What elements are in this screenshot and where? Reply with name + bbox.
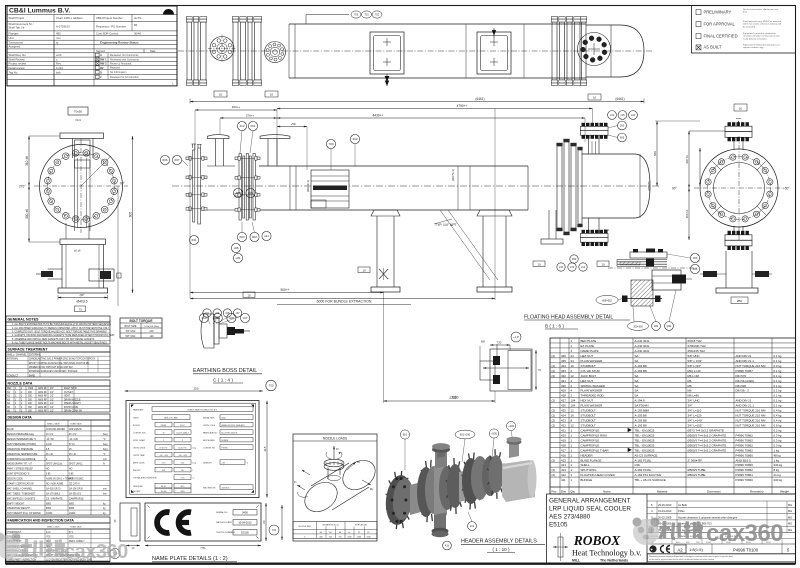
svg-text:4. GASKETS, PACKING AND MARKI: 4. GASKETS, PACKING AND MARKING GASKETS … xyxy=(12,334,115,337)
svg-text:OPERATING PRESSURE: OPERATING PRESSURE xyxy=(7,448,34,451)
svg-text:ANSI RF: ANSI RF xyxy=(38,387,48,390)
svg-text:SA-516 GR.70: SA-516 GR.70 xyxy=(46,487,61,490)
svg-text:NOZZLE DATA: NOZZLE DATA xyxy=(8,382,33,386)
svg-text:NUT TORQUE 210 NM: NUT TORQUE 210 NM xyxy=(736,424,766,428)
svg-text:46.10: 46.10 xyxy=(161,486,166,488)
svg-text:P4996 T0862: P4996 T0862 xyxy=(736,438,754,442)
svg-text:900++: 900++ xyxy=(280,288,289,292)
svg-text:29-06-2010: 29-06-2010 xyxy=(658,503,672,507)
svg-text:+500: +500 xyxy=(491,432,497,436)
svg-text:DIN 570: DIN 570 xyxy=(736,374,747,378)
svg-text:2500: 2500 xyxy=(357,537,361,539)
svg-text:%: % xyxy=(103,464,105,466)
svg-text:CAMPROFILE: CAMPROFILE xyxy=(69,497,84,500)
svg-text:x41: x41 xyxy=(264,234,269,238)
svg-text:MG: MG xyxy=(788,528,792,532)
svg-text:73.6: 73.6 xyxy=(181,462,185,464)
svg-text:AND DIN 21: AND DIN 21 xyxy=(736,354,752,358)
svg-text:SPOT UW-11(b): SPOT UW-11(b) xyxy=(46,464,63,466)
svg-text:JOINT EFFICIENCY E: JOINT EFFICIENCY E xyxy=(7,474,30,476)
svg-text:601: 601 xyxy=(403,433,408,437)
svg-text:LRP LIQUID SEAL COOLER: LRP LIQUID SEAL COOLER xyxy=(549,506,631,513)
svg-text:3/4" L=140": 3/4" L=140" xyxy=(688,419,703,423)
svg-text:x04: x04 xyxy=(236,256,241,260)
svg-text:400++: 400++ xyxy=(232,105,241,109)
svg-text:C ( 1 : 4 ): C ( 1 : 4 ) xyxy=(213,378,233,384)
svg-text:432: 432 xyxy=(561,374,566,378)
svg-text:419: 419 xyxy=(561,438,566,442)
svg-text:Detail review: Detail review xyxy=(9,66,26,70)
svg-text:1 kg: 1 kg xyxy=(774,448,780,452)
svg-text:0.1 kg: 0.1 kg xyxy=(774,394,782,398)
svg-text:STUDBOLT: STUDBOLT xyxy=(581,364,596,368)
svg-text:BESTELNMR: BESTELNMR xyxy=(203,440,215,442)
svg-text:3/4" UNC: 3/4" UNC xyxy=(688,399,700,403)
svg-text:As Built: As Built xyxy=(678,503,687,507)
svg-text:SERIAL NMR: SERIAL NMR xyxy=(203,417,215,420)
svg-text:HEX NUT: HEX NUT xyxy=(581,399,594,403)
svg-text:10: 10 xyxy=(247,293,251,297)
svg-text:605: 605 xyxy=(128,212,132,218)
svg-text:MG: MG xyxy=(788,515,792,519)
svg-text:5. ASSEMBLE AND INSTALL NEW G: 5. ASSEMBLE AND INSTALL NEW GASKETS ONLY… xyxy=(12,338,95,341)
svg-text:0.3 kg: 0.3 kg xyxy=(774,438,782,442)
svg-text:P4996 T0957: P4996 T0957 xyxy=(736,369,754,373)
svg-text:INSTR CONN: INSTR CONN xyxy=(64,407,78,409)
svg-text:Shell Tab. Nr: Shell Tab. Nr xyxy=(9,26,25,30)
svg-text:HEX NUT: HEX NUT xyxy=(581,354,594,358)
svg-text:418: 418 xyxy=(561,443,566,447)
svg-text:DESIGN DATA: DESIGN DATA xyxy=(8,416,33,420)
svg-text:36/40: 36/40 xyxy=(134,31,141,35)
svg-text:TBL + A5-CS SURFACE: TBL + A5-CS SURFACE xyxy=(635,478,666,482)
svg-text:(2): (2) xyxy=(552,409,556,413)
svg-text:Pos: Pos xyxy=(552,490,558,494)
svg-text:DIN 56 - 3: DIN 56 - 3 xyxy=(736,389,750,393)
svg-text:GENERAL NOTES: GENERAL NOTES xyxy=(8,318,39,322)
svg-text:Rejected: Rejected xyxy=(110,67,120,70)
svg-text:RW 1: RW 1 xyxy=(100,57,107,61)
svg-text:Shell Project: Shell Project xyxy=(9,16,25,20)
svg-text:0.4 kg: 0.4 kg xyxy=(774,409,782,413)
svg-text:P4996 T0862: P4996 T0862 xyxy=(736,448,754,452)
svg-text:NOZZLE REF: NOZZLE REF xyxy=(298,526,311,528)
svg-text:2500: 2500 xyxy=(366,537,370,539)
svg-text:ROBOX: ROBOX xyxy=(573,533,622,548)
svg-text:E5105: E5105 xyxy=(549,522,568,529)
svg-text:01-04-2010: 01-04-2010 xyxy=(658,509,672,513)
svg-text:411: 411 xyxy=(445,544,450,548)
svg-text:Mfr: Mfr xyxy=(134,24,138,27)
svg-text:mm: mm xyxy=(103,493,107,495)
svg-text:ANSI RF: ANSI RF xyxy=(38,406,48,409)
svg-text:Qty: Qty xyxy=(571,490,576,494)
svg-text:10: 10 xyxy=(362,268,366,272)
svg-text:Fabricated to Related Drawing: Fabricated to Related Drawing lists on xyxy=(743,43,781,46)
svg-text:SA: SA xyxy=(635,389,639,393)
svg-text:Mc: Mc xyxy=(320,532,323,534)
svg-text:411: 411 xyxy=(561,478,566,482)
svg-text:426: 426 xyxy=(561,404,566,408)
svg-text:434: 434 xyxy=(561,364,566,368)
svg-text:P4996 T0862: P4996 T0862 xyxy=(736,433,754,437)
svg-text:(60°: (60° xyxy=(80,293,85,297)
svg-text:8950: 8950 xyxy=(69,508,75,510)
svg-text:LRP LIQUID: LRP LIQUID xyxy=(69,429,82,431)
svg-text:10: 10 xyxy=(270,93,274,97)
svg-text:1/2": 1/2" xyxy=(50,407,54,409)
svg-text:EPOXY COATING 40-60 MU RAL 50: EPOXY COATING 40-60 MU RAL 5015 FINAL CO… xyxy=(29,362,90,365)
svg-text:CORROSION ALLOWANCE: CORROSION ALLOWANCE xyxy=(7,458,36,461)
svg-text:750: 750 xyxy=(338,537,341,539)
svg-text:A-193 B8: A-193 B8 xyxy=(635,424,647,428)
svg-text:Cust SDR Control: Cust SDR Control xyxy=(96,31,119,35)
svg-text:10.0 / F.V.: 10.0 / F.V. xyxy=(178,447,187,449)
svg-text:P4996 T0860: P4996 T0860 xyxy=(736,478,754,482)
svg-text:OPERATING WEIGHT: OPERATING WEIGHT xyxy=(7,507,30,510)
svg-text:HEX NUT: HEX NUT xyxy=(581,379,594,383)
svg-text:14.30: 14.30 xyxy=(46,444,52,446)
svg-text:Nozzle clearance & opposite s: Nozzle clearance & opposite several othe… xyxy=(678,515,738,519)
svg-text:require contract copy: require contract copy xyxy=(743,46,764,49)
svg-text:5/8" UNC: 5/8" UNC xyxy=(688,354,700,358)
svg-text:barg: barg xyxy=(193,461,196,464)
svg-text:3/4" UNC: 3/4" UNC xyxy=(125,330,135,333)
svg-text:NO: NO xyxy=(69,469,73,471)
svg-text:AS BUILT: AS BUILT xyxy=(704,45,722,50)
svg-text:M6 L=48: M6 L=48 xyxy=(688,374,700,378)
svg-text:300 ±6: 300 ±6 xyxy=(25,209,29,219)
svg-text:1/2": 1/2" xyxy=(50,399,54,401)
svg-text:0.1 kg: 0.1 kg xyxy=(774,354,782,358)
svg-text:BUNDLE: BUNDLE xyxy=(581,478,593,482)
svg-text:0.85: 0.85 xyxy=(46,474,51,476)
svg-text:Engineering Review Status: Engineering Review Status xyxy=(100,40,139,44)
svg-text:002: 002 xyxy=(252,235,257,239)
svg-text:90°: 90° xyxy=(120,182,126,186)
svg-text:A-240 304L: A-240 304L xyxy=(635,349,650,353)
svg-text:(76): (76) xyxy=(201,546,206,550)
svg-text:SA: SA xyxy=(635,394,639,398)
svg-text:1/2": 1/2" xyxy=(50,410,54,412)
svg-text:2.87: 2.87 xyxy=(222,462,226,464)
svg-text:3/4" L=120: 3/4" L=120 xyxy=(688,414,702,418)
svg-text:CAMPROFILE: CAMPROFILE xyxy=(581,438,600,442)
svg-text:This drawing remains property: This drawing remains property of Robox H… xyxy=(649,555,733,558)
svg-text:barg: barg xyxy=(103,448,108,451)
svg-text:A-193 B8: A-193 B8 xyxy=(635,414,647,418)
svg-text:AND DIN 21: AND DIN 21 xyxy=(736,399,752,403)
svg-text:GEWICHT: GEWICHT xyxy=(203,463,213,465)
svg-text:1:8(1:5): 1:8(1:5) xyxy=(689,547,703,552)
svg-text:250x315 TH2: 250x315 TH2 xyxy=(688,349,706,353)
svg-text:x15: x15 xyxy=(620,113,625,117)
svg-text:NUT TORQUE 210 NM: NUT TORQUE 210 NM xyxy=(736,419,766,423)
svg-text:DESIGN CODE: DESIGN CODE xyxy=(7,479,23,481)
svg-text:Requestor / PO Number: Requestor / PO Number xyxy=(96,25,126,29)
svg-text:0.1 kg: 0.1 kg xyxy=(774,374,782,378)
svg-text:1. ALL BOLTS EXPOSED BOLTS TO: 1. ALL BOLTS EXPOSED BOLTS TO BE TORQUED… xyxy=(12,323,111,326)
svg-text:603: 603 xyxy=(239,235,244,239)
svg-text:CONSTR. SVC: CONSTR. SVC xyxy=(133,433,147,435)
svg-text:±0 ±6: ±0 ±6 xyxy=(74,249,81,253)
svg-text:Material: Material xyxy=(657,490,668,494)
svg-text:480: 480 xyxy=(56,31,61,35)
svg-text:mm: mm xyxy=(103,459,107,461)
svg-text:YES: YES xyxy=(46,537,51,539)
svg-text:DIN 520: DIN 520 xyxy=(736,384,747,388)
svg-text:433: 433 xyxy=(561,369,566,373)
svg-text:NUT TORQUE 210 NM: NUT TORQUE 210 NM xyxy=(736,364,766,368)
svg-text:60: 60 xyxy=(262,520,266,524)
svg-text:0.3 kg: 0.3 kg xyxy=(774,364,782,368)
svg-text:PABRIKANT: PABRIKANT xyxy=(133,409,144,412)
svg-text:FOR APPROVAL: FOR APPROVAL xyxy=(704,21,736,26)
svg-text:could delivery schedules: could delivery schedules xyxy=(743,37,768,40)
svg-text:ONTW. DRUK: ONTW. DRUK xyxy=(133,448,146,450)
svg-text:cax360: cax360 xyxy=(64,541,128,563)
svg-text:230 kg: 230 kg xyxy=(774,478,783,482)
svg-text:260: 260 xyxy=(620,124,625,128)
svg-text:210: 210 xyxy=(150,330,155,333)
svg-text:BEPR. DRUK: BEPR. DRUK xyxy=(133,463,145,465)
svg-text:x16: x16 xyxy=(559,265,564,269)
svg-text:21 kg: 21 kg xyxy=(774,473,781,477)
svg-text:INHOUD: INHOUD xyxy=(133,470,141,472)
svg-text:x07: x07 xyxy=(243,316,248,320)
svg-text:416: 416 xyxy=(561,453,566,457)
svg-text:BARE: BARE xyxy=(29,374,36,377)
svg-text:200: 200 xyxy=(352,137,357,141)
svg-text:6. ALL TUBE FLANGE SHEET BOLT: 6. ALL TUBE FLANGE SHEET BOLTS MACHINE B… xyxy=(12,341,107,344)
svg-text:720: 720 xyxy=(497,341,502,345)
svg-text:TBL - EN10025: TBL - EN10025 xyxy=(635,438,655,442)
svg-text:EX PLATE: EX PLATE xyxy=(581,344,595,348)
svg-text:CE CAT IV: CE CAT IV xyxy=(69,482,80,485)
svg-text:A2: A2 xyxy=(677,547,683,552)
svg-text:429: 429 xyxy=(561,389,566,393)
svg-text:R2: R2 xyxy=(100,66,104,70)
svg-text:NOB/NL: NOB/NL xyxy=(222,440,229,442)
svg-text:TORQUE (Nm): TORQUE (Nm) xyxy=(144,326,159,328)
svg-text:16: 16 xyxy=(571,414,575,418)
svg-text:0.1 kg: 0.1 kg xyxy=(774,359,782,363)
svg-text:SPLIT RING: SPLIT RING xyxy=(581,468,598,472)
svg-text:(2): (2) xyxy=(552,414,556,418)
svg-text:(6461): (6461) xyxy=(475,97,484,101)
svg-text:0.1 kg: 0.1 kg xyxy=(774,384,782,388)
svg-text:150#: 150# xyxy=(28,388,34,390)
svg-text:AES-273 / 4880: AES-273 / 4880 xyxy=(164,416,177,419)
svg-text:P4996 T0100: P4996 T0100 xyxy=(733,548,759,553)
svg-text:OUTLET: OUTLET xyxy=(64,392,74,394)
svg-text:STER. DRAFT: STER. DRAFT xyxy=(133,439,146,442)
svg-text:TBL - EN10025: TBL - EN10025 xyxy=(635,448,655,452)
svg-text:700: 700 xyxy=(268,384,273,388)
svg-text:SA: SA xyxy=(635,359,639,363)
svg-text:GEBOUWD: GEBOUWD xyxy=(133,486,144,488)
svg-text:-10 / +120: -10 / +120 xyxy=(159,455,168,457)
svg-text:Dim: Dim xyxy=(561,490,567,494)
svg-text:x16: x16 xyxy=(631,113,636,117)
svg-text:SHELL SIDE: SHELL SIDE xyxy=(47,424,60,426)
svg-text:SA: SA xyxy=(635,354,639,358)
svg-text:M6: M6 xyxy=(688,384,692,388)
svg-text:CONSTR. NO: CONSTR. NO xyxy=(203,448,215,450)
svg-text:Ø500/3 T=4.5x3.2 GRAPHITE: Ø500/3 T=4.5x3.2 GRAPHITE xyxy=(688,433,727,437)
svg-text:10400: 10400 xyxy=(69,513,76,515)
svg-text:+50°: +50° xyxy=(783,187,790,191)
svg-text:x08: x08 xyxy=(225,312,230,315)
svg-text:54-173-4480-3: 54-173-4480-3 xyxy=(176,432,188,434)
svg-text:TBL - EN10025: TBL - EN10025 xyxy=(635,428,655,432)
svg-text:10: 10 xyxy=(601,262,605,266)
svg-text:WND REG NR: WND REG NR xyxy=(203,488,216,490)
svg-text:4790++: 4790++ xyxy=(457,104,468,108)
svg-text:8 kg: 8 kg xyxy=(774,468,780,472)
svg-text:mm: mm xyxy=(103,488,107,490)
svg-text:STAMP / CERTIFICATION: STAMP / CERTIFICATION xyxy=(7,482,34,485)
svg-text:ROBOX HEAT TECHNOLOGY B.V.: ROBOX HEAT TECHNOLOGY B.V. xyxy=(188,408,218,411)
svg-text:THREADED ROD: THREADED ROD xyxy=(581,394,604,398)
svg-text:P4996 T0862: P4996 T0862 xyxy=(736,468,754,472)
svg-text:No Information: No Information xyxy=(110,71,127,74)
svg-text:1/2": 1/2" xyxy=(50,396,54,398)
svg-text:A-0703103: A-0703103 xyxy=(56,25,70,29)
svg-text:(2): (2) xyxy=(552,354,556,358)
svg-text:P4996 T0860: P4996 T0860 xyxy=(736,463,754,467)
svg-text:PLAIN WASHER: PLAIN WASHER xyxy=(581,359,603,363)
svg-text:0.85: 0.85 xyxy=(69,474,74,476)
svg-text:27.6 / F.V.: 27.6 / F.V. xyxy=(159,447,168,449)
svg-text:6800: 6800 xyxy=(69,503,75,505)
svg-text:PRIMER 60 MU TOPCOAT 60: PRIMER 60 MU TOPCOAT 60 MU DFT MU xyxy=(29,366,73,369)
svg-text:ANSI RF: ANSI RF xyxy=(38,409,48,412)
svg-text:TUBE SIDE: TUBE SIDE xyxy=(70,424,82,426)
svg-text:14.3: 14.3 xyxy=(46,532,51,534)
svg-text:M6 L=80: M6 L=80 xyxy=(688,394,700,398)
svg-text:431: 431 xyxy=(561,379,566,383)
svg-text:be extended: be extended xyxy=(743,25,756,28)
svg-text:315: 315 xyxy=(263,446,267,451)
svg-text:HEADER: HEADER xyxy=(581,453,593,457)
svg-text:Tag No.: Tag No. xyxy=(9,70,19,74)
svg-text:P.Rev: P.Rev xyxy=(678,509,685,513)
svg-text:DRAIN CONN SH: DRAIN CONN SH xyxy=(64,409,82,412)
svg-text:412: 412 xyxy=(239,124,244,128)
svg-text:MG: MG xyxy=(788,509,792,513)
svg-text:0.4 kg: 0.4 kg xyxy=(774,414,782,418)
svg-text:CAMPROFILE: CAMPROFILE xyxy=(581,428,600,432)
svg-text:40.9: 40.9 xyxy=(181,486,185,488)
svg-text:SA-179 SMLS: SA-179 SMLS xyxy=(46,492,61,495)
svg-text:(2): (2) xyxy=(552,468,556,472)
svg-text:270°: 270° xyxy=(19,185,26,189)
svg-text:The Netherlands: The Netherlands xyxy=(600,559,628,563)
svg-text:+50: +50 xyxy=(290,122,295,126)
svg-text:57.1: 57.1 xyxy=(69,532,74,534)
svg-text:420: 420 xyxy=(561,433,566,437)
svg-text:MILL: MILL xyxy=(572,559,580,563)
svg-text:4430++: 4430++ xyxy=(373,113,384,117)
svg-text:605: 605 xyxy=(620,136,625,140)
svg-text:0.3 kg: 0.3 kg xyxy=(774,433,782,437)
svg-text:Ø500/3 T=4.5x3.2 GRAPHITE: Ø500/3 T=4.5x3.2 GRAPHITE xyxy=(688,438,727,442)
svg-text:253: 253 xyxy=(162,470,165,472)
svg-text:barg: barg xyxy=(103,443,108,446)
svg-text:3. COMPLETE UNIT : BOLT TORQU: 3. COMPLETE UNIT : BOLT TORQUE VALUES AC… xyxy=(12,330,107,333)
svg-text:A-182 F316L: A-182 F316L xyxy=(635,458,652,462)
svg-text:MG: MG xyxy=(788,522,792,526)
svg-text:SANDBLASTING SA2.5 PRIMER ZIN: SANDBLASTING SA2.5 PRIMER ZINC 60 MU TOP… xyxy=(29,358,96,361)
svg-text:0.5 kg: 0.5 kg xyxy=(774,424,782,428)
svg-text:25 / 40: 25 / 40 xyxy=(46,454,54,456)
svg-text:x08: x08 xyxy=(234,246,239,250)
svg-text:Reviewed, No Comments: Reviewed, No Comments xyxy=(110,54,139,57)
svg-text:L: L xyxy=(193,470,194,472)
svg-text:bdb: bdb xyxy=(56,70,61,74)
svg-text:DRAIN NOZZLE: DRAIN NOZZLE xyxy=(64,398,81,401)
svg-text:DESIGN TEMPERATURE °C: DESIGN TEMPERATURE °C xyxy=(7,438,37,441)
svg-text:FLUID: FLUID xyxy=(7,429,14,431)
svg-text:Not for construction, dimensio: Not for construction, dimensions not xyxy=(743,8,778,11)
svg-text:2780: 2780 xyxy=(451,396,458,400)
svg-text:250: 250 xyxy=(193,387,198,391)
svg-text:Name: Name xyxy=(603,490,611,494)
svg-text:1/2": 1/2" xyxy=(50,403,54,405)
svg-text:STUDBOLT: STUDBOLT xyxy=(581,424,596,428)
svg-text:P4996 T0860: P4996 T0860 xyxy=(736,453,754,457)
svg-text:GxTG: GxTG xyxy=(134,16,141,20)
svg-text:Ø500/3 TUBE: Ø500/3 TUBE xyxy=(688,468,706,472)
svg-text:Released for Construction: Released for Construction xyxy=(110,76,140,79)
svg-text:CB&I Lummus B.V.: CB&I Lummus B.V. xyxy=(9,8,70,15)
svg-text:PRESS SAFETY: PRESS SAFETY xyxy=(64,402,82,405)
svg-text:424: 424 xyxy=(561,414,566,418)
svg-text:Reviewed with Comments: Reviewed with Comments xyxy=(110,58,140,61)
svg-text:412: 412 xyxy=(561,473,566,477)
svg-text:TESTED NUMBER: TESTED NUMBER xyxy=(216,532,235,534)
svg-text:M10 L=40: M10 L=40 xyxy=(688,369,701,373)
svg-text:Revise & Resubmit: Revise & Resubmit xyxy=(110,63,132,66)
svg-text:500: 500 xyxy=(653,151,657,156)
svg-text:SA: SA xyxy=(635,374,639,378)
svg-text:90°: 90° xyxy=(672,187,678,191)
svg-text:2" 300# RF: 2" 300# RF xyxy=(688,458,703,462)
svg-text:GENERAL ARRANGEMENT: GENERAL ARRANGEMENT xyxy=(549,498,631,505)
svg-text:230 kg: 230 kg xyxy=(774,463,783,467)
svg-text:3/4" L=155": 3/4" L=155" xyxy=(688,424,703,428)
svg-text:SURFACE TREATMENT: SURFACE TREATMENT xyxy=(8,348,49,352)
svg-text:AND DIN 21.1: AND DIN 21.1 xyxy=(736,404,755,408)
svg-text:Final approval copy, MUST be r: Final approval copy, MUST be returned xyxy=(743,20,782,23)
svg-text:10: 10 xyxy=(162,432,164,434)
svg-text:607: 607 xyxy=(174,158,179,162)
svg-text:A-194 8: A-194 8 xyxy=(635,399,646,403)
svg-text:INTERNAL: INTERNAL xyxy=(7,358,19,361)
svg-text:M6: M6 xyxy=(688,379,692,383)
svg-text:16: 16 xyxy=(571,364,575,368)
svg-text:10: 10 xyxy=(739,106,743,110)
svg-text:x10: x10 xyxy=(205,312,210,315)
svg-text:SA-350 LF2: SA-350 LF2 xyxy=(69,492,82,495)
svg-text:VENT: VENT xyxy=(64,396,71,398)
svg-text:Equipment currently in product: Equipment currently in production. xyxy=(743,32,777,35)
svg-text:300 ±6: 300 ±6 xyxy=(685,209,689,218)
svg-text:260: 260 xyxy=(572,257,577,261)
svg-text:FLOATING HEAD ASSEMBLY DETAIL: FLOATING HEAD ASSEMBLY DETAIL xyxy=(524,315,613,321)
svg-text:0.1 kg: 0.1 kg xyxy=(774,389,782,393)
